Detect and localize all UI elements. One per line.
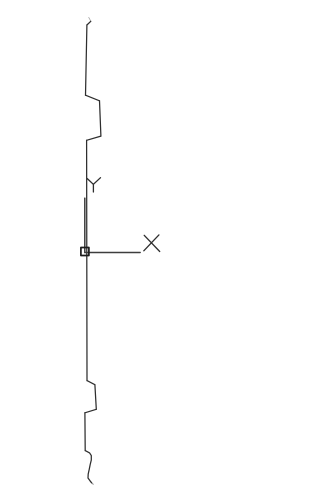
wire: lower break jog back left [85,409,96,413]
wire: lower vertical segment [84,413,86,451]
label X (axis label) [144,235,160,252]
wire: lower break jog to right [87,381,95,385]
wire: top break stub [87,21,91,25]
wire: bottom squiggle fading tail [92,483,94,485]
wire: middle vertical segment [86,140,88,380]
wire: upper vertical segment [86,25,87,95]
wire: lower jog offset vertical [95,385,96,410]
ucs icon Y axis line [84,198,86,252]
label Y (axis label) [87,178,100,192]
wire: bottom break squiggle [85,451,91,483]
wire: upper break jog to right [86,95,100,101]
wire: upper break jog back left [87,136,101,140]
ucs icon X axis line [85,252,140,254]
wire: top break squiggle tail (faint) [89,17,91,21]
ucs icon origin box [81,248,89,256]
wire: upper jog offset vertical [100,101,101,136]
